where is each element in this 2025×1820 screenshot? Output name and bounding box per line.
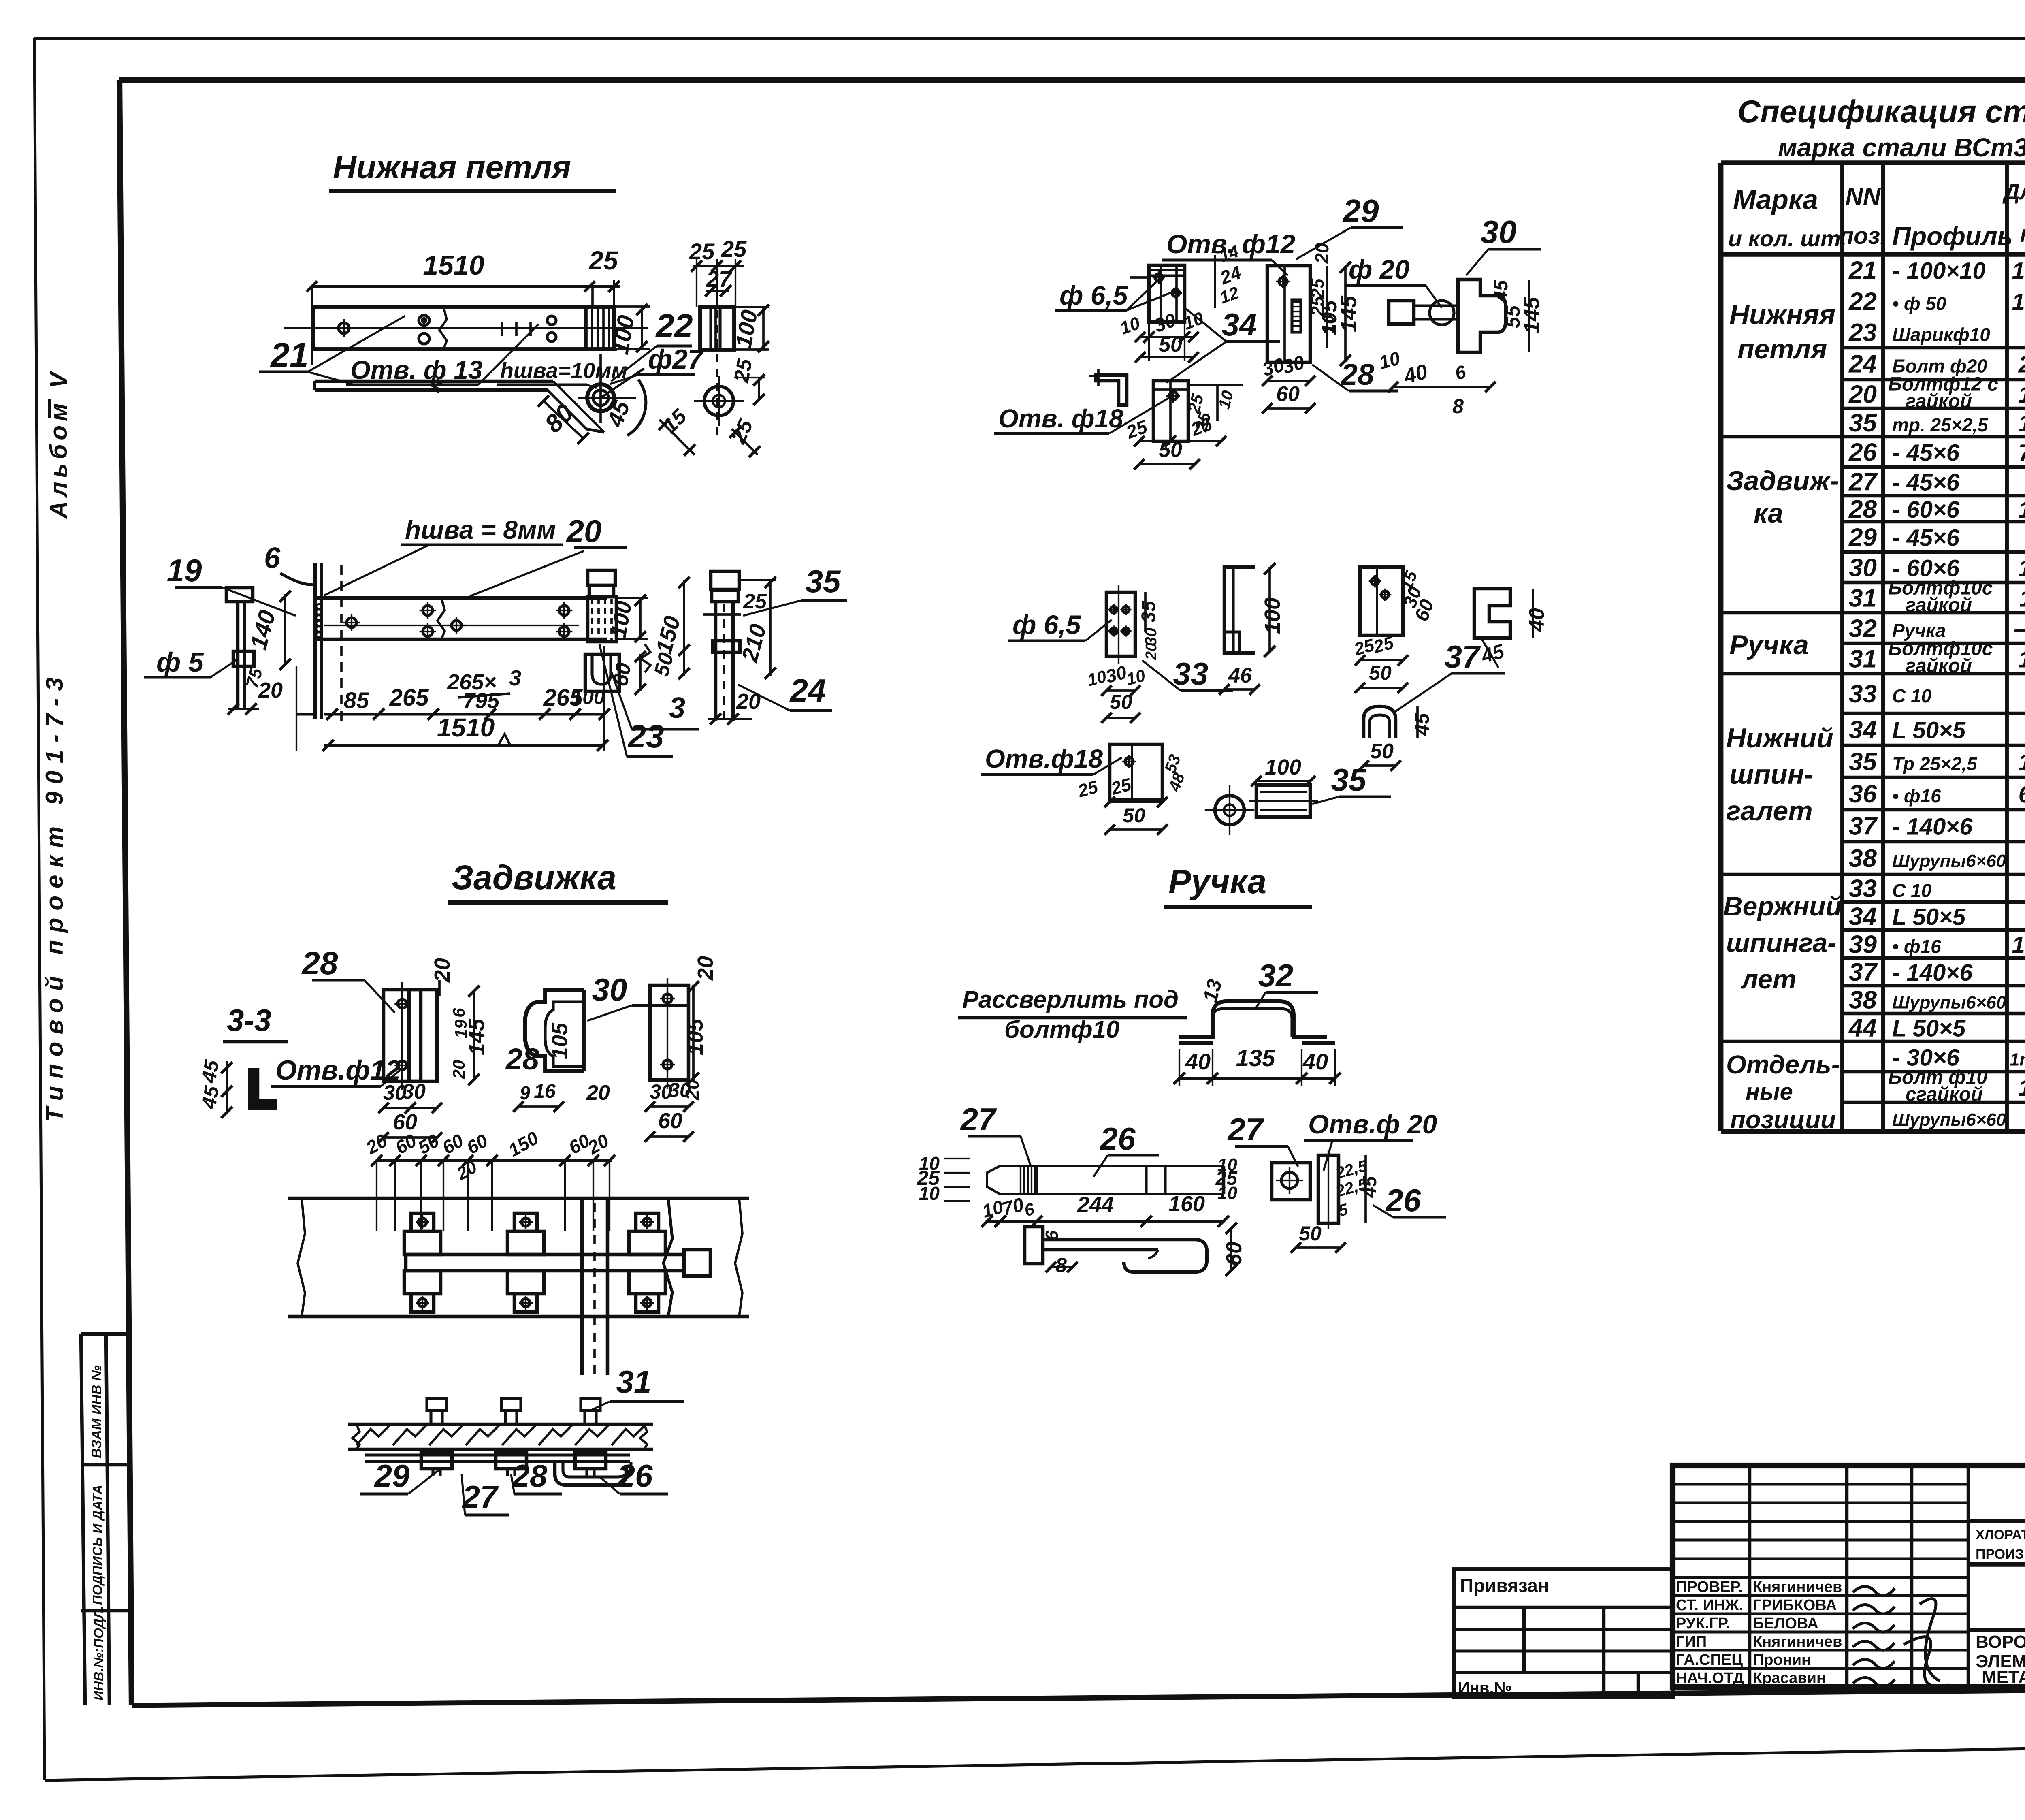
svg-text:1540: 1540 (2012, 258, 2025, 284)
svg-text:50: 50 (1370, 740, 1394, 763)
svg-text:8: 8 (1452, 395, 1464, 418)
svg-text:6: 6 (449, 1008, 468, 1018)
svg-text:26: 26 (1100, 1121, 1136, 1156)
svg-text:- 45×6: - 45×6 (1892, 440, 1960, 466)
svg-text:34: 34 (1222, 307, 1257, 342)
svg-text:- 140×6: - 140×6 (1892, 960, 1973, 986)
svg-text:28: 28 (301, 945, 338, 981)
svg-text:Шурупы6×60: Шурупы6×60 (1892, 851, 2006, 871)
svg-text:44: 44 (1848, 1014, 1877, 1042)
svg-text:27: 27 (1848, 468, 1878, 496)
svg-text:40: 40 (1185, 1049, 1211, 1074)
svg-text:ВЗАМ ИНВ №: ВЗАМ ИНВ № (89, 1365, 104, 1458)
svg-text:28: 28 (1848, 495, 1877, 523)
svg-text:85: 85 (344, 687, 369, 713)
svg-text:3-3: 3-3 (227, 1003, 271, 1038)
svg-text:3: 3 (509, 666, 521, 690)
svg-text:34: 34 (1849, 903, 1877, 931)
svg-text:• ф16: • ф16 (1892, 936, 1941, 957)
svg-text:37: 37 (1849, 958, 1878, 986)
svg-text:26: 26 (617, 1458, 653, 1494)
svg-text:20: 20 (1311, 243, 1332, 264)
svg-text:Шарикф10: Шарикф10 (1892, 324, 1990, 345)
svg-text:Ручка: Ручка (1168, 862, 1266, 900)
svg-text:ные: ные (1746, 1079, 1793, 1105)
svg-text:28: 28 (505, 1042, 539, 1076)
svg-text:ПРОВЕР.: ПРОВЕР. (1676, 1579, 1743, 1596)
svg-text:60: 60 (658, 1109, 682, 1133)
svg-text:Альбом V: Альбом V (45, 368, 72, 519)
svg-text:25: 25 (730, 356, 757, 384)
svg-text:29: 29 (1848, 524, 1877, 552)
svg-text:• ф16: • ф16 (1892, 785, 1941, 807)
svg-text:26: 26 (1848, 439, 1877, 467)
svg-text:20: 20 (682, 1079, 703, 1101)
svg-text:23: 23 (627, 718, 664, 754)
svg-text:- 45×6: - 45×6 (1892, 525, 1960, 551)
svg-text:Нижная петля: Нижная петля (333, 149, 571, 185)
svg-text:Марка: Марка (1733, 184, 1818, 215)
svg-text:и кол. шт.: и кол. шт. (1728, 226, 1847, 251)
svg-text:21: 21 (270, 336, 308, 374)
svg-text:ГИП: ГИП (1676, 1633, 1707, 1650)
svg-text:25: 25 (721, 236, 747, 262)
svg-text:160: 160 (1168, 1192, 1205, 1216)
svg-text:35: 35 (1849, 748, 1877, 776)
svg-text:46: 46 (1228, 664, 1252, 687)
svg-text:31: 31 (1849, 585, 1877, 612)
svg-text:ВОРОТА МЕТАЛЛИЧЕСКИЕ: ВОРОТА МЕТАЛЛИЧЕСКИЕ (1976, 1632, 2025, 1652)
svg-text:37: 37 (1445, 639, 1481, 674)
svg-text:ф27: ф27 (648, 344, 704, 375)
svg-text:Отв.ф18: Отв.ф18 (985, 744, 1103, 773)
svg-text:Задвижка: Задвижка (452, 858, 616, 896)
svg-text:10: 10 (919, 1183, 940, 1204)
svg-text:135: 135 (1236, 1045, 1276, 1071)
svg-text:23: 23 (1848, 319, 1877, 347)
svg-text:ф 6,5: ф 6,5 (1013, 610, 1081, 640)
svg-text:100: 100 (2019, 1075, 2025, 1101)
svg-text:Шурупы6×60: Шурупы6×60 (1892, 993, 2006, 1013)
svg-text:50: 50 (1159, 438, 1182, 462)
svg-text:110: 110 (2019, 586, 2025, 612)
svg-text:1510: 1510 (423, 250, 484, 281)
svg-text:28: 28 (512, 1458, 548, 1494)
svg-text:27: 27 (960, 1101, 997, 1137)
svg-text:36: 36 (1849, 780, 1877, 808)
svg-text:30: 30 (402, 1080, 426, 1103)
svg-text:10: 10 (1320, 315, 1338, 333)
svg-text:ф 6,5: ф 6,5 (1059, 280, 1128, 310)
svg-text:40: 40 (1302, 1049, 1328, 1074)
svg-text:БЕЛОВА: БЕЛОВА (1753, 1615, 1818, 1632)
svg-text:50: 50 (1123, 804, 1145, 827)
svg-text:30: 30 (1849, 554, 1877, 582)
svg-text:тр. 25×2,5: тр. 25×2,5 (1892, 414, 1989, 435)
svg-text:1580: 1580 (2012, 932, 2025, 958)
svg-text:С 10: С 10 (1892, 880, 1932, 901)
svg-text:- 100×10: - 100×10 (1892, 258, 1986, 284)
svg-text:120: 120 (2019, 382, 2025, 408)
svg-text:45: 45 (1490, 280, 1512, 302)
svg-text:50: 50 (1159, 333, 1182, 356)
svg-text:Княгиничев: Княгиничев (1753, 1579, 1842, 1596)
svg-text:6: 6 (1042, 1230, 1062, 1240)
svg-text:ПОДПИСЬ И ДАТА: ПОДПИСЬ И ДАТА (90, 1485, 105, 1605)
svg-text:галет: галет (1726, 796, 1813, 826)
svg-text:hшва = 8мм: hшва = 8мм (405, 515, 556, 544)
svg-text:Спецификация стали на 1ворота: Спецификация стали на 1ворота (1737, 94, 2025, 129)
svg-text:50: 50 (1110, 691, 1132, 713)
svg-text:40: 40 (1525, 608, 1549, 632)
svg-text:- 45×6: - 45×6 (1892, 469, 1960, 496)
svg-text:- 60×6: - 60×6 (1892, 497, 1960, 523)
svg-text:ПРОИЗВОДИТЕЛЬНОСТЬЮ 12,5КГ ТОВ: ПРОИЗВОДИТЕЛЬНОСТЬЮ 12,5КГ ТОВАРНОГО ХЛО… (1976, 1547, 2025, 1562)
svg-text:27: 27 (1227, 1112, 1264, 1147)
svg-text:25: 25 (689, 239, 715, 264)
svg-text:27: 27 (462, 1479, 499, 1515)
svg-text:39: 39 (1849, 931, 1877, 959)
svg-text:22: 22 (1848, 288, 1877, 316)
svg-text:Нижняя: Нижняя (1729, 299, 1835, 330)
svg-text:шпин-: шпин- (1729, 759, 1813, 790)
svg-text:20: 20 (566, 513, 602, 549)
svg-text:30: 30 (592, 972, 627, 1007)
svg-text:45: 45 (197, 1084, 224, 1111)
svg-text:Тр 25×2,5: Тр 25×2,5 (1892, 753, 1978, 775)
svg-text:25: 25 (1308, 296, 1328, 316)
svg-text:L 50×5: L 50×5 (1892, 717, 1966, 744)
svg-text:35: 35 (1138, 600, 1160, 623)
svg-text:31: 31 (1849, 645, 1877, 673)
svg-text:ГА.СПЕЦ: ГА.СПЕЦ (1676, 1651, 1743, 1669)
svg-text:210: 210 (2018, 352, 2025, 378)
svg-text:Нижний: Нижний (1726, 723, 1833, 753)
svg-text:Отв. ф18: Отв. ф18 (998, 404, 1123, 433)
svg-text:100: 100 (1260, 597, 1285, 634)
svg-text:33: 33 (1173, 656, 1209, 691)
svg-text:С 10: С 10 (1892, 685, 1932, 706)
svg-text:Привязан: Привязан (1460, 1575, 1549, 1596)
svg-text:ХЛОРАТОРНАЯ ДЛЯ ОБЕЗЗАРАЖИВАНИ: ХЛОРАТОРНАЯ ДЛЯ ОБЕЗЗАРАЖИВАНИЯ ПИТЬЕВЫХ… (1976, 1527, 2025, 1542)
svg-text:10: 10 (1217, 1183, 1237, 1203)
svg-text:Типовой проект 901-7-3: Типовой проект 901-7-3 (41, 670, 68, 1122)
svg-text:265: 265 (389, 685, 429, 711)
svg-text:34: 34 (1849, 716, 1877, 744)
svg-text:лет: лет (1740, 964, 1797, 994)
svg-text:24: 24 (789, 672, 826, 708)
svg-text:25: 25 (588, 246, 618, 275)
svg-text:Отдель-: Отдель- (1726, 1050, 1840, 1079)
svg-text:19: 19 (167, 553, 202, 588)
svg-text:Профиль: Профиль (1892, 222, 2013, 251)
svg-text:22: 22 (655, 307, 693, 344)
svg-text:29: 29 (1342, 193, 1379, 229)
svg-text:145: 145 (465, 1018, 489, 1055)
svg-text:25: 25 (1308, 278, 1328, 299)
svg-text:31: 31 (616, 1364, 652, 1400)
svg-text:27: 27 (706, 266, 733, 292)
svg-text:100: 100 (2019, 646, 2025, 673)
svg-text:ГРИБКОВА: ГРИБКОВА (1753, 1597, 1837, 1614)
svg-text:hшва=10мм: hшва=10мм (500, 358, 627, 383)
svg-text:16: 16 (534, 1081, 556, 1102)
svg-text:105: 105 (548, 1022, 572, 1059)
svg-text:——: —— (2014, 616, 2025, 642)
svg-text:1т+1н: 1т+1н (2010, 1050, 2025, 1070)
svg-text:болтф10: болтф10 (1004, 1016, 1119, 1043)
svg-text:45: 45 (197, 1058, 224, 1085)
svg-text:Вержний: Вержний (1723, 891, 1842, 921)
svg-text:ИНВ.№:ПОДЛ.: ИНВ.№:ПОДЛ. (91, 1606, 106, 1701)
svg-text:35: 35 (1849, 409, 1877, 437)
svg-text:L 50×5: L 50×5 (1892, 904, 1966, 930)
svg-text:45: 45 (1359, 1176, 1381, 1198)
svg-text:позиции: позиции (1730, 1106, 1836, 1134)
svg-text:НАЧ.ОТД: НАЧ.ОТД (1676, 1670, 1744, 1687)
svg-text:100: 100 (2019, 749, 2025, 776)
svg-text:ф 20: ф 20 (1349, 254, 1409, 284)
svg-text:100: 100 (2019, 410, 2025, 437)
svg-text:60: 60 (393, 1110, 417, 1134)
svg-text:33: 33 (1849, 875, 1877, 903)
svg-text:9: 9 (520, 1082, 530, 1103)
svg-text:244: 244 (1077, 1193, 1114, 1217)
svg-text:145: 145 (2019, 555, 2025, 582)
svg-text:Инв.№: Инв.№ (1458, 1679, 1512, 1697)
svg-text:20: 20 (430, 958, 454, 983)
svg-text:20: 20 (1848, 381, 1877, 409)
svg-text:Пронин: Пронин (1753, 1651, 1811, 1669)
svg-text:поз.: поз. (1840, 223, 1887, 249)
svg-text:60: 60 (1222, 1242, 1246, 1266)
svg-text:Шурупы6×60: Шурупы6×60 (1892, 1110, 2006, 1130)
svg-text:3: 3 (669, 692, 685, 724)
svg-text:33: 33 (1849, 680, 1877, 708)
svg-text:20: 20 (586, 1081, 610, 1105)
svg-text:28: 28 (1340, 358, 1375, 391)
svg-text:45: 45 (1411, 713, 1433, 736)
svg-text:29: 29 (374, 1458, 410, 1494)
svg-text:РУК.ГР.: РУК.ГР. (1676, 1615, 1730, 1632)
svg-text:60: 60 (1276, 382, 1300, 406)
svg-text:160: 160 (2019, 497, 2025, 523)
svg-text:100: 100 (571, 686, 605, 708)
svg-text:Отв.ф 20: Отв.ф 20 (1308, 1109, 1437, 1139)
svg-text:20: 20 (449, 1060, 468, 1080)
svg-text:32: 32 (1258, 958, 1294, 993)
svg-text:32: 32 (1849, 615, 1877, 643)
svg-text:20: 20 (1143, 643, 1160, 660)
svg-text:марка стали ВСт3 кп2 ГОСТ: марка стали ВСт3 кп2 ГОСТ380-71.* (1778, 133, 2025, 162)
svg-text:МЕТАЛЛА: МЕТАЛЛА (1982, 1667, 2025, 1687)
svg-text:• ф 50: • ф 50 (1892, 293, 1946, 314)
svg-text:L 50×5: L 50×5 (1892, 1016, 1966, 1042)
svg-text:- 140×6: - 140×6 (1892, 814, 1973, 840)
svg-text:Длина: Длина (2002, 180, 2025, 204)
svg-text:мм: мм (2020, 220, 2025, 248)
svg-text:ф 5: ф 5 (156, 647, 204, 678)
svg-text:21: 21 (1848, 257, 1877, 285)
svg-text:50: 50 (1299, 1222, 1322, 1245)
svg-text:20: 20 (258, 678, 283, 702)
svg-text:145: 145 (1336, 295, 1361, 332)
svg-text:37: 37 (1849, 813, 1878, 841)
svg-text:Княгиничев: Княгиничев (1753, 1633, 1842, 1650)
svg-text:100: 100 (1265, 755, 1301, 779)
svg-text:Задвиж-: Задвиж- (1726, 465, 1839, 496)
svg-text:шпинга-: шпинга- (1726, 928, 1836, 958)
svg-text:600: 600 (2019, 781, 2025, 808)
svg-text:105: 105 (683, 1018, 708, 1055)
svg-text:8: 8 (1055, 1254, 1067, 1276)
svg-text:26: 26 (1385, 1182, 1421, 1218)
svg-text:1000: 1000 (2012, 289, 2025, 316)
svg-text:730: 730 (2019, 440, 2025, 466)
svg-text:38: 38 (1849, 986, 1877, 1014)
svg-text:35: 35 (1331, 762, 1367, 798)
svg-text:Ручка: Ручка (1729, 629, 1809, 660)
svg-text:30: 30 (1481, 214, 1517, 250)
svg-text:Рассверлить под: Рассверлить под (962, 986, 1179, 1013)
svg-text:20: 20 (693, 956, 718, 981)
svg-text:петля: петля (1737, 334, 1827, 365)
svg-text:145: 145 (1520, 297, 1544, 333)
svg-text:35: 35 (806, 563, 841, 599)
svg-text:24: 24 (1848, 350, 1877, 378)
svg-text:NN: NN (1846, 183, 1881, 210)
svg-text:Красавин: Красавин (1753, 1670, 1826, 1687)
svg-text:50: 50 (1369, 661, 1392, 684)
svg-text:ка: ка (1754, 498, 1783, 529)
svg-text:1510: 1510 (437, 713, 495, 742)
svg-text:6: 6 (264, 542, 281, 574)
svg-text:СТ. ИНЖ.: СТ. ИНЖ. (1676, 1597, 1743, 1614)
svg-text:38: 38 (1849, 845, 1877, 873)
